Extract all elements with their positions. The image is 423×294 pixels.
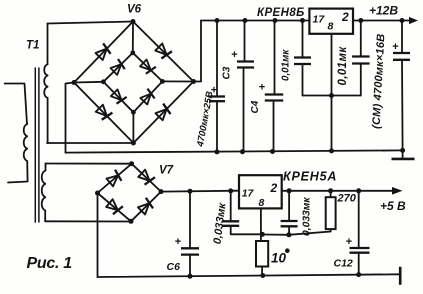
diode V6 inner bottom-right	[139, 89, 156, 106]
node C3 rail bottom	[240, 149, 245, 154]
svg-text:+: +	[259, 82, 265, 94]
wire 0,01мк ground link	[303, 95, 361, 97]
svg-text:V6: V6	[127, 4, 142, 16]
capacitor 0,01мк second plates	[352, 55, 370, 57]
capacitor C12 branch bottom	[358, 253, 360, 275]
node V6 right	[191, 79, 196, 84]
svg-text:+: +	[346, 236, 352, 248]
svg-text:V7: V7	[159, 165, 174, 177]
wire V6 left stub	[74, 81, 103, 84]
wire +5V rail right of regulator	[282, 190, 394, 192]
svg-text:4700мк×25В: 4700мк×25В	[195, 90, 216, 148]
capacitor C12 branch top	[358, 191, 360, 248]
resistor R 270 top stub	[330, 191, 332, 197]
wire V6 right node up to +12V rail	[194, 21, 202, 82]
diode bridge V6 outer ring	[74, 22, 194, 144]
node СМ rail top	[400, 18, 405, 23]
svg-text:С6: С6	[167, 261, 181, 273]
svg-text:+: +	[175, 236, 181, 248]
capacitor 0,033мк first plates	[222, 220, 239, 222]
wire minus rail upper section	[66, 150, 403, 152]
node V7 left	[95, 191, 100, 196]
capacitor 0,01мк first branch top	[302, 21, 304, 58]
arrow +12V output	[409, 17, 418, 24]
svg-text:2: 2	[270, 181, 278, 195]
diode V6 outer top-right	[154, 43, 172, 61]
svg-text:КРЕН5А: КРЕН5А	[283, 169, 337, 183]
svg-text:2: 2	[341, 10, 349, 24]
wire V7 left node down to lower minus rail	[97, 193, 99, 277]
svg-text:+12В: +12В	[369, 4, 398, 18]
diode bridge V6 inner ring	[103, 53, 162, 113]
voltage regulator U2 КРЕН5А box	[239, 175, 282, 208]
diode V6 outer bottom-right	[155, 104, 173, 122]
node 0,033мк second ground junction	[286, 232, 291, 237]
diode V7 bottom-left	[105, 198, 123, 216]
diode V6 outer bottom-left	[95, 104, 113, 122]
svg-text:Рис. 1: Рис. 1	[27, 255, 73, 272]
node V6 inner right	[160, 79, 165, 84]
transformer T1 primary lead bottom	[8, 161, 28, 183]
capacitor C6 branch bottom	[189, 255, 191, 277]
node C4 rail bottom	[270, 149, 275, 154]
node V6 top	[131, 19, 136, 24]
capacitor 0,01мк second branch bottom	[360, 64, 362, 96]
svg-text:С12: С12	[334, 258, 353, 270]
node V7 right	[159, 189, 164, 194]
svg-text:17: 17	[242, 188, 255, 200]
wire V6 left node down to minus rail	[66, 83, 75, 153]
wire U2 pin8 down	[260, 208, 262, 241]
capacitor C4 branch bottom	[273, 101, 275, 152]
node V7 top	[129, 161, 134, 166]
wire secondary2 bottom to V7 bottom node	[45, 220, 131, 222]
node C12 rail top	[356, 188, 361, 193]
node V6 inner left	[101, 79, 106, 84]
capacitor 4700мк25В branch top	[216, 21, 218, 97]
capacitor СМ branch bottom	[401, 60, 404, 151]
diode V7 bottom-right	[137, 198, 155, 216]
capacitor C3 plates	[237, 60, 254, 62]
svg-text:0,01мк: 0,01мк	[281, 49, 292, 81]
capacitor C4 plates	[265, 93, 284, 95]
node 0,033мк first rail top	[228, 188, 233, 193]
node 0,01мк first rail top	[300, 18, 305, 23]
node C12 rail bottom	[356, 272, 361, 277]
svg-text:270: 270	[337, 193, 357, 205]
node V6 bottom	[131, 141, 136, 146]
svg-text:+5 В: +5 В	[380, 199, 406, 213]
capacitor 4700мк25В branch bottom	[216, 101, 218, 152]
diode bridge V7 ring	[98, 164, 162, 222]
svg-text:8: 8	[328, 21, 334, 33]
node pin8 minus rail	[329, 148, 334, 153]
node V6 inner bottom	[131, 110, 136, 115]
svg-text:КРЕН8Б: КРЕН8Б	[257, 7, 305, 19]
terminal bar lower rail end	[399, 267, 402, 285]
node 4700мк25В rail top	[215, 18, 220, 23]
diode V6 inner top-left	[110, 59, 127, 76]
capacitor C3 branch top	[244, 21, 246, 62]
capacitor 0,033мк second plates	[281, 220, 298, 222]
wire secondary1 bottom to V6 bottom node	[47, 142, 133, 144]
svg-text:8: 8	[259, 197, 265, 209]
wire lower minus rail	[98, 274, 401, 277]
node V6 inner top	[130, 50, 135, 55]
wire secondary2 top to V7 top node	[46, 163, 132, 165]
node 0,033мк second rail top	[287, 188, 292, 193]
node C6 rail bottom	[188, 274, 193, 279]
capacitor C4 branch top	[274, 21, 276, 95]
node V6 left	[72, 80, 77, 85]
svg-text:17: 17	[313, 14, 326, 26]
wire +5V rail left of regulator	[161, 190, 239, 193]
voltage regulator U1 КРЕН8Б box	[309, 9, 353, 34]
ground upper section	[400, 148, 405, 153]
capacitor 0,01мк first plates	[294, 56, 311, 58]
capacitor 0,033мк second branch top	[288, 191, 290, 221]
svg-text:Т1: Т1	[26, 40, 39, 52]
wire V6 right stub	[162, 80, 193, 82]
wire V6 top stub	[132, 22, 134, 53]
svg-text:С4: С4	[250, 100, 261, 113]
svg-text:10: 10	[271, 251, 287, 266]
resistor R 270 bottom stub	[330, 229, 332, 231]
transformer T1 secondary winding 2	[45, 164, 47, 171]
diode V6 outer top-left	[95, 43, 113, 61]
capacitor 0,033мк second branch bottom	[288, 226, 290, 235]
diode V6 inner bottom-left	[110, 89, 127, 106]
svg-text:С3: С3	[222, 66, 233, 79]
diode V6 inner top-right	[139, 59, 156, 76]
capacitor 0,01мк second branch top	[360, 21, 362, 57]
svg-text:0,01мк: 0,01мк	[337, 46, 349, 86]
wire ground link to 0,033мк second and R270	[263, 232, 331, 235]
capacitor C3 branch bottom	[243, 68, 245, 152]
capacitor C12 plates	[350, 247, 370, 249]
resistor R 10 bottom stub	[261, 267, 263, 276]
transformer T1 primary winding	[24, 124, 27, 161]
node C4 rail top	[273, 18, 278, 23]
capacitor 0,033мк first branch top	[230, 191, 232, 221]
node resistor 270 rail top	[328, 188, 333, 193]
node resistor 10 rail bottom	[260, 273, 265, 278]
wire secondary1 top to V6 top node	[48, 22, 134, 24]
capacitor СМ plates	[393, 52, 410, 54]
wire +12V rail right of regulator	[353, 20, 410, 22]
diode V7 top-left	[106, 170, 124, 188]
node 0,01мк second rail top	[358, 18, 363, 23]
resistor R 10 body	[256, 241, 268, 267]
node C3 rail top	[243, 18, 248, 23]
capacitor 4700мк25В plates	[209, 95, 225, 97]
resistor R 270 body	[326, 197, 336, 229]
transformer T1 secondary winding 1	[47, 24, 49, 65]
capacitor C6 plates	[181, 247, 199, 249]
wire U1 pin8 to minus rail	[331, 34, 333, 151]
svg-text:+: +	[392, 41, 398, 53]
node U2 pin8 junction	[260, 232, 265, 237]
capacitor C6 branch top	[189, 191, 191, 248]
transformer T1 primary lead top	[5, 84, 27, 125]
node C6 rail top	[188, 189, 193, 194]
svg-text:+: +	[231, 49, 237, 61]
arrow +5V output	[392, 187, 403, 195]
transformer T1 core	[34, 68, 36, 222]
wire V6 bottom stub	[132, 112, 134, 143]
node 4700мк25В rail bottom	[215, 149, 220, 154]
svg-text:0,033мк: 0,033мк	[212, 201, 229, 245]
capacitor 0,033мк first branch bottom	[231, 226, 263, 235]
capacitor 0,01мк first branch bottom	[302, 64, 304, 96]
diode V7 top-right	[137, 169, 155, 187]
node V7 bottom	[129, 219, 134, 224]
node pin8 ground link	[329, 93, 334, 98]
svg-text:0,033мк: 0,033мк	[302, 197, 313, 236]
capacitor СМ branch top	[401, 21, 403, 54]
svg-text:(СМ) 4700мк×16В: (СМ) 4700мк×16В	[371, 33, 388, 129]
wire +12V rail left of regulator	[201, 20, 309, 22]
